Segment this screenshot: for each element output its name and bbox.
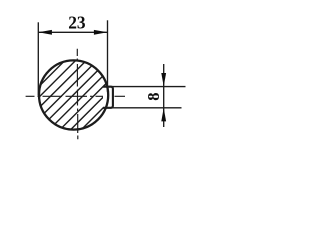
svg-text:8: 8: [144, 92, 163, 100]
svg-text:23: 23: [68, 13, 85, 33]
